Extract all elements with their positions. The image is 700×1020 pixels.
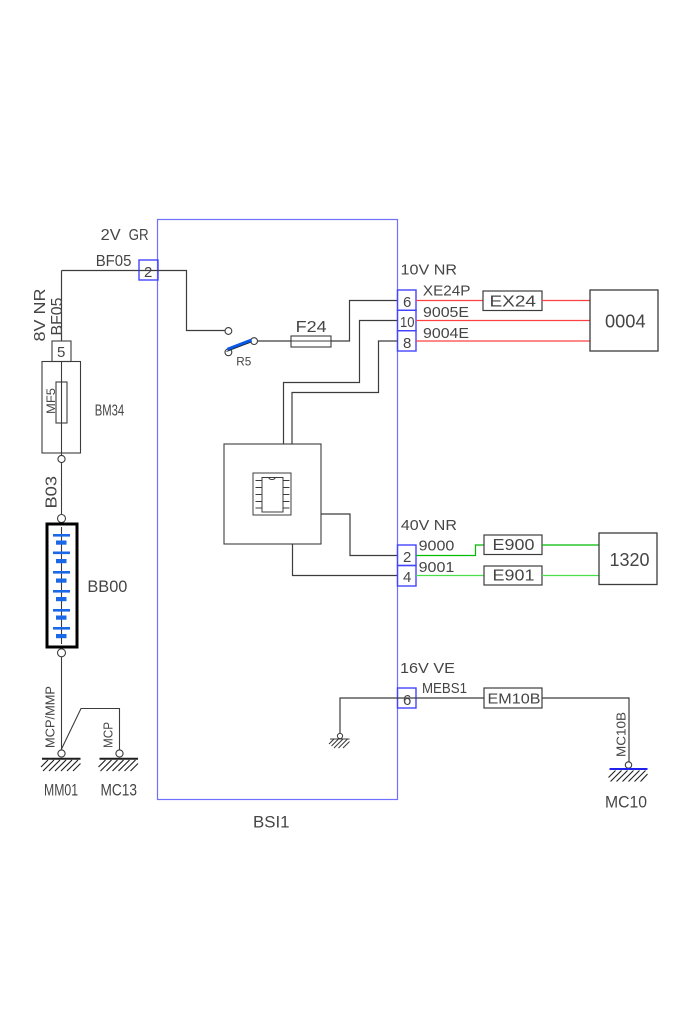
svg-text:BM34: BM34 bbox=[95, 403, 125, 420]
connector EM10B bbox=[484, 688, 542, 708]
wire pin 6 (16V) to internal ground bbox=[340, 698, 398, 733]
svg-text:10: 10 bbox=[400, 314, 415, 331]
ground MM01 bbox=[41, 759, 81, 771]
wire EM10B to ground MC10 bbox=[542, 698, 629, 762]
wire MCU to pin 2 (40V) bbox=[321, 514, 398, 556]
wire BF05 horizontal from BM34 column to pin 2 bbox=[62, 270, 140, 272]
svg-text:0004: 0004 bbox=[605, 312, 646, 332]
fuse box pin 5 bbox=[52, 341, 71, 362]
connector E901 bbox=[484, 566, 542, 585]
wire from pin 2 to switch R5 bbox=[158, 271, 225, 331]
wire EX24 to 0004 (red) bbox=[542, 300, 590, 302]
wire pin 10 to MCU bbox=[284, 321, 398, 445]
svg-text:5: 5 bbox=[57, 344, 65, 361]
pin 2 (40V) bbox=[398, 545, 417, 566]
svg-text:40V NR: 40V NR bbox=[401, 517, 457, 534]
node circle at MC10 bbox=[625, 762, 631, 768]
svg-text:9000: 9000 bbox=[419, 538, 455, 555]
wire E901 to 1320 (green) bbox=[542, 575, 599, 577]
wire 9001 pin4 to E901 (green) bbox=[416, 575, 484, 577]
ground MC13 bbox=[99, 759, 139, 771]
battery BB00 bbox=[47, 515, 77, 657]
connector EX24 bbox=[483, 291, 542, 311]
svg-text:E901: E901 bbox=[493, 568, 535, 585]
fuse F24 bbox=[291, 336, 331, 347]
svg-text:9001: 9001 bbox=[419, 559, 455, 576]
wire E900 to 1320 (green) bbox=[542, 544, 599, 546]
IC pins left bbox=[256, 481, 263, 509]
svg-text:2V: 2V bbox=[101, 227, 121, 244]
svg-text:R5: R5 bbox=[236, 355, 251, 369]
wire MCU to pin 4 bbox=[293, 544, 398, 576]
svg-text:MF5: MF5 bbox=[44, 388, 58, 414]
wire battery to ground MM01 bbox=[61, 657, 63, 750]
component 0004 box bbox=[590, 290, 658, 351]
svg-text:2: 2 bbox=[144, 264, 152, 281]
pin 8 bbox=[398, 331, 417, 352]
svg-text:9004E: 9004E bbox=[423, 325, 469, 342]
svg-text:MC13: MC13 bbox=[101, 781, 138, 800]
wire through BM34 bbox=[61, 362, 63, 456]
pin 6 (10V) bbox=[398, 290, 417, 311]
wire pin 8 to MCU bbox=[292, 341, 398, 444]
component 1320 box bbox=[599, 533, 657, 585]
svg-text:6: 6 bbox=[403, 294, 411, 311]
IC symbol frame bbox=[253, 473, 291, 515]
MCU block inside BSI1 bbox=[224, 444, 321, 544]
svg-text:GR: GR bbox=[129, 227, 149, 244]
wire fuse to pin 6 bbox=[331, 301, 398, 342]
svg-text:MC10: MC10 bbox=[605, 793, 647, 812]
wire 9004E pin8 to 0004 (red) bbox=[416, 340, 590, 342]
svg-text:BF05: BF05 bbox=[96, 253, 132, 270]
ground (inside BSI1) bbox=[329, 739, 350, 748]
ground MC10 (blue bar) bbox=[609, 769, 648, 782]
wire switch to fuse F24 bbox=[258, 340, 292, 342]
svg-text:6: 6 bbox=[403, 692, 411, 709]
wire 9005E pin10 to 0004 (red) bbox=[416, 320, 590, 322]
pin 6 (16V) bbox=[398, 688, 417, 709]
wire branch to ground MC13 bbox=[62, 709, 120, 751]
svg-text:8V NR: 8V NR bbox=[32, 289, 49, 342]
IC pins right bbox=[283, 481, 290, 509]
svg-text:BB00: BB00 bbox=[87, 577, 127, 596]
wire 9000 pin2 to E900 (green) bbox=[416, 545, 484, 556]
switch R5 bbox=[225, 328, 258, 356]
fuse MF5 bbox=[56, 382, 67, 423]
wire BF05 vertical drop to fuse box pin 5 bbox=[61, 271, 63, 342]
fusebox BM34 bbox=[42, 362, 81, 454]
wire B03 bbox=[61, 463, 63, 515]
svg-text:BF05: BF05 bbox=[49, 297, 66, 335]
svg-text:B03: B03 bbox=[44, 476, 61, 509]
svg-text:XE24P: XE24P bbox=[423, 283, 471, 300]
node circle at MC13 bbox=[116, 750, 123, 757]
svg-text:MCP: MCP bbox=[101, 722, 116, 748]
svg-text:9005E: 9005E bbox=[423, 304, 469, 321]
svg-text:4: 4 bbox=[403, 569, 411, 586]
node circle at internal ground bbox=[337, 733, 342, 738]
wire MEBS1 pin6 to EM10B bbox=[416, 697, 484, 699]
svg-text:BSI1: BSI1 bbox=[253, 813, 290, 832]
svg-text:E900: E900 bbox=[493, 537, 535, 554]
connector E900 bbox=[484, 535, 542, 555]
control unit BSI1 box bbox=[158, 220, 398, 800]
IC chip body bbox=[262, 478, 283, 513]
svg-text:MCP/MMP: MCP/MMP bbox=[43, 686, 58, 748]
wire XE24P pin6 to EX24 (red) bbox=[416, 300, 483, 302]
node circle at MM01 bbox=[58, 750, 65, 757]
svg-text:MEBS1: MEBS1 bbox=[422, 680, 467, 697]
svg-text:8: 8 bbox=[403, 335, 411, 352]
svg-text:F24: F24 bbox=[296, 319, 327, 336]
pin 4 bbox=[398, 566, 417, 587]
svg-text:16V VE: 16V VE bbox=[400, 660, 455, 677]
svg-text:EX24: EX24 bbox=[490, 293, 537, 310]
svg-text:10V NR: 10V NR bbox=[401, 262, 458, 279]
pin 10 bbox=[398, 310, 417, 331]
svg-text:EM10B: EM10B bbox=[488, 691, 541, 708]
svg-text:1320: 1320 bbox=[610, 550, 650, 570]
svg-text:2: 2 bbox=[403, 549, 411, 566]
node circle below BM34 bbox=[58, 455, 65, 462]
pin 2 (left edge of BSI1) bbox=[139, 260, 158, 281]
svg-text:MC10B: MC10B bbox=[614, 712, 629, 757]
svg-text:MM01: MM01 bbox=[44, 781, 78, 800]
